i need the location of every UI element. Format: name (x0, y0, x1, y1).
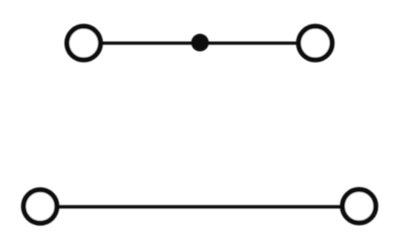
junction dot (191, 34, 209, 52)
wire top bridge (101, 41, 298, 44)
terminal bottom-right (342, 190, 375, 223)
terminal bottom-left (24, 190, 57, 223)
wire bottom (57, 205, 343, 208)
terminal top-left (67, 26, 101, 60)
terminal top-right (299, 26, 333, 60)
